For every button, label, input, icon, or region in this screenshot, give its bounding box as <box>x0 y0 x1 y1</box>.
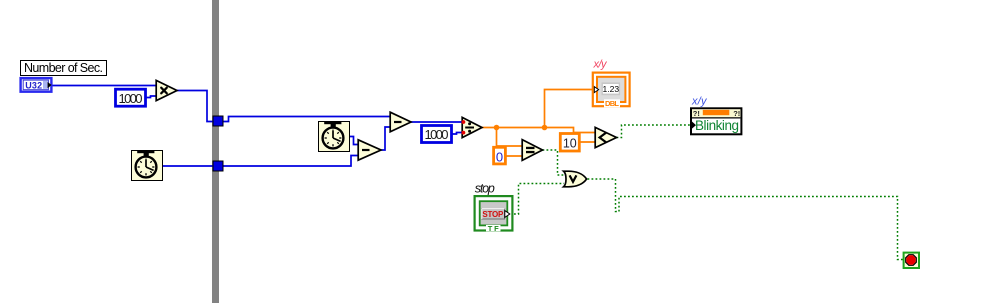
svg-text:1.23: 1.23 <box>603 84 620 94</box>
svg-text:x/y: x/y <box>691 96 708 108</box>
svg-text:STOP: STOP <box>482 210 504 219</box>
svg-text:DBL: DBL <box>605 99 619 108</box>
svg-text:Blinking: Blinking <box>695 118 739 133</box>
svg-text:Number of Sec.: Number of Sec. <box>24 61 103 75</box>
svg-text:U32: U32 <box>25 80 42 90</box>
svg-text:x/y: x/y <box>593 58 609 70</box>
svg-text:?!: ?! <box>693 109 700 118</box>
svg-text:?!: ?! <box>733 109 740 118</box>
svg-text:0: 0 <box>496 149 503 164</box>
svg-text:TF: TF <box>488 224 499 233</box>
svg-text:stop: stop <box>475 181 495 195</box>
svg-text:1000: 1000 <box>119 91 143 106</box>
svg-text:10: 10 <box>563 136 577 150</box>
svg-text:1000: 1000 <box>425 127 449 142</box>
